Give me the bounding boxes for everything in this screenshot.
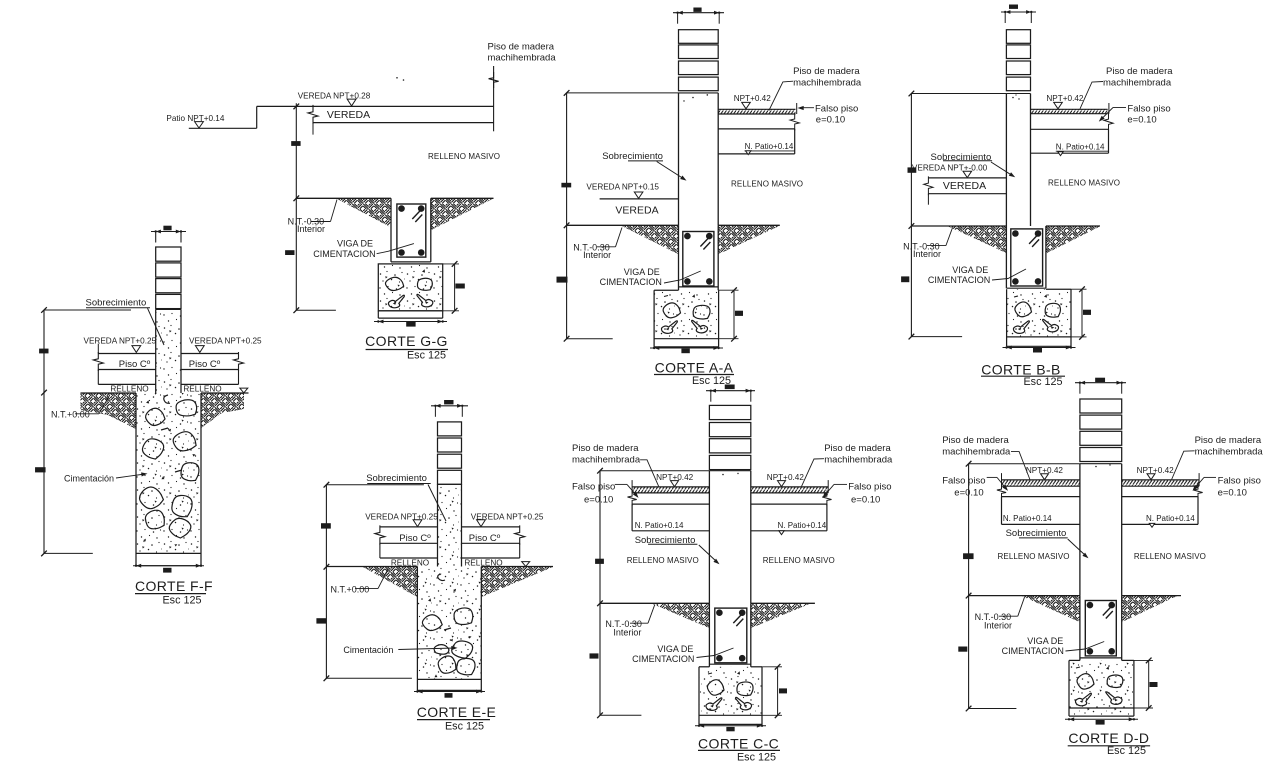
A-A left height dimension xyxy=(557,90,679,341)
D-D footing right dimension xyxy=(1134,658,1158,711)
F-F sobrecimiento stippled column xyxy=(156,309,181,393)
svg-text:machihembrada: machihembrada xyxy=(488,53,557,64)
C-C patio band left xyxy=(632,504,709,531)
A-A label Falso piso e=0.10 xyxy=(798,103,859,125)
svg-text:Interior: Interior xyxy=(613,627,641,637)
svg-text:Interior: Interior xyxy=(583,250,611,260)
F-F foundation (cimentacion) block xyxy=(136,393,201,566)
F-F label N.T.+0.00 xyxy=(51,395,110,420)
svg-text:N. Patio+0.14: N. Patio+0.14 xyxy=(635,521,684,530)
svg-text:VIGA DE: VIGA DE xyxy=(1027,636,1063,646)
E-E top width dimension xyxy=(431,400,468,417)
svg-text:RELLENO MASIVO: RELLENO MASIVO xyxy=(763,556,835,565)
svg-text:Piso Cº: Piso Cº xyxy=(399,533,431,544)
D-D sobrecimiento column walls xyxy=(1080,464,1122,596)
G-G label Piso de madera machihembrada xyxy=(488,42,557,64)
B-B ground hatch left xyxy=(948,226,1006,253)
B-B label VIGA DE CIMENTACION xyxy=(928,265,1026,285)
svg-text:Esc 125: Esc 125 xyxy=(445,720,484,732)
E-E foundation base band xyxy=(414,690,485,698)
C-C falso piso band right xyxy=(751,491,832,507)
svg-text:CORTE D-D: CORTE D-D xyxy=(1068,730,1149,746)
E-E label Piso C left xyxy=(399,533,431,544)
C-C viga below ground xyxy=(709,603,750,667)
svg-text:VIGA DE: VIGA DE xyxy=(952,265,988,275)
C-C footing block xyxy=(699,667,762,725)
F-F foundation base band xyxy=(133,564,204,573)
F-F label Piso C right xyxy=(189,359,221,370)
A-A ground line xyxy=(567,224,780,226)
D-D patio band left xyxy=(1002,497,1080,525)
svg-text:CORTE F-F: CORTE F-F xyxy=(135,578,213,594)
svg-text:RELLENO MASIVO: RELLENO MASIVO xyxy=(1134,552,1206,561)
D-D ground line xyxy=(969,595,1181,597)
G-G left dimension line xyxy=(285,103,336,313)
A-A column brick courses xyxy=(679,30,719,91)
D-D label N.T.-0.30 Interior xyxy=(975,597,1025,630)
svg-text:Sobrecimiento: Sobrecimiento xyxy=(86,298,147,309)
D-D label Piso de madera machihembrada left xyxy=(942,435,1030,480)
D-D label VIGA DE CIMENTACION xyxy=(1002,636,1105,656)
B-B viga de cimentacion section xyxy=(1006,226,1046,288)
svg-text:e=0.10: e=0.10 xyxy=(851,494,880,505)
B-B footing bottom dimension xyxy=(1003,346,1076,353)
E-E label Sobrecimiento xyxy=(366,473,446,521)
E-E sidewalk slab band (Piso) xyxy=(375,525,525,558)
svg-text:Interior: Interior xyxy=(297,224,325,234)
C-C top width dimension xyxy=(706,385,755,402)
E-E left height dimension xyxy=(316,482,424,681)
A-A title xyxy=(654,359,734,387)
B-B label VEREDA NPT+-0.00 xyxy=(912,163,988,177)
svg-text:RELLENO MASIVO: RELLENO MASIVO xyxy=(627,556,699,565)
B-B label Piso de madera machihembrada xyxy=(1080,66,1173,109)
svg-text:Falso piso: Falso piso xyxy=(1127,103,1170,114)
svg-text:CIMENTACION: CIMENTACION xyxy=(313,249,375,259)
A-A label Sobrecimiento xyxy=(602,151,686,181)
B-B label Falso piso e=0.10 xyxy=(1099,103,1171,125)
F-F sidewalk slab band (Piso) xyxy=(93,344,243,385)
F-F label RELLENO right xyxy=(183,385,221,394)
F-F left height dimension line xyxy=(35,307,131,556)
B-B label RELLENO MASIVO xyxy=(1048,179,1120,188)
B-B sobrecimiento column walls xyxy=(1006,94,1030,227)
G-G leader line from label to vereda xyxy=(489,66,499,131)
svg-text:N.T.+0.00: N.T.+0.00 xyxy=(331,584,370,594)
D-D label RELLENO MASIVO right xyxy=(1134,552,1206,561)
F-F ground hatch right xyxy=(201,393,244,428)
A-A column below ground and viga xyxy=(679,225,719,290)
E-E ground line and level mark xyxy=(326,562,553,567)
D-D patio band right xyxy=(1122,497,1198,525)
svg-text:VEREDA: VEREDA xyxy=(943,180,986,192)
D-D ground hatch left xyxy=(1022,596,1080,622)
D-D label Piso de madera machihembrada right xyxy=(1172,435,1264,480)
svg-text:N. Patio+0.14: N. Patio+0.14 xyxy=(778,521,827,530)
C-C label NPT+0.42 left xyxy=(656,473,694,487)
E-E label Cimentacion xyxy=(343,645,457,655)
C-C falso piso band left xyxy=(628,491,710,507)
F-F ground line and level mark xyxy=(81,388,249,393)
svg-text:VIGA DE: VIGA DE xyxy=(657,644,693,654)
E-E label RELLENO left xyxy=(391,559,429,568)
D-D label Falso piso e=0.10 right xyxy=(1193,475,1261,498)
svg-text:Falso piso: Falso piso xyxy=(815,103,858,114)
svg-text:CORTE E-E: CORTE E-E xyxy=(417,704,497,720)
F-F title xyxy=(135,578,213,607)
svg-text:RELLENO MASIVO: RELLENO MASIVO xyxy=(998,552,1070,561)
svg-text:machihembrada: machihembrada xyxy=(793,77,862,88)
A-A label VIGA DE CIMENTACION xyxy=(600,267,701,287)
A-A label N.T.-0.30 Interior xyxy=(573,228,622,261)
F-F label Cimentacion xyxy=(64,472,148,483)
svg-text:Sobrecimiento: Sobrecimiento xyxy=(602,151,663,162)
G-G title xyxy=(365,333,448,361)
svg-text:machihembrada: machihembrada xyxy=(1195,446,1264,457)
D-D label NPT+0.42 right xyxy=(1137,466,1175,480)
B-B footing block xyxy=(1007,289,1071,346)
A-A ground hatch left xyxy=(622,226,679,255)
A-A label VEREDA NPT+0.15 xyxy=(586,182,659,198)
svg-text:Falso piso: Falso piso xyxy=(572,481,615,492)
G-G ground hatch right xyxy=(431,199,493,231)
B-B ground line xyxy=(911,225,1100,227)
svg-text:machihembrada: machihembrada xyxy=(572,455,641,466)
C-C label Piso de madera machihembrada left xyxy=(572,443,659,486)
svg-text:e=0.10: e=0.10 xyxy=(584,494,613,505)
B-B piso de madera strip xyxy=(1031,103,1109,114)
C-C footing right dimension xyxy=(762,664,787,718)
svg-text:Cimentación: Cimentación xyxy=(64,474,114,484)
svg-text:RELLENO MASIVO: RELLENO MASIVO xyxy=(428,152,500,161)
B-B falso piso band xyxy=(1031,113,1114,132)
svg-text:CORTE G-G: CORTE G-G xyxy=(365,333,448,349)
B-B column brick courses xyxy=(1006,30,1030,91)
C-C label NPT+0.42 right xyxy=(767,473,805,487)
svg-text:Piso de madera: Piso de madera xyxy=(488,42,555,53)
C-C piso de madera strip left xyxy=(632,480,709,493)
svg-text:machihembrada: machihembrada xyxy=(942,446,1011,457)
svg-text:machihembrada: machihembrada xyxy=(1103,77,1172,88)
svg-text:CIMENTACION: CIMENTACION xyxy=(1002,646,1064,656)
svg-text:VEREDA NPT+0.25: VEREDA NPT+0.25 xyxy=(189,337,262,346)
E-E sobrecimiento stippled column xyxy=(438,484,462,566)
svg-text:VEREDA NPT+0.28: VEREDA NPT+0.28 xyxy=(298,92,371,101)
C-C label N. Patio+0.14 right xyxy=(778,521,827,534)
svg-text:RELLENO MASIVO: RELLENO MASIVO xyxy=(731,180,803,189)
svg-text:Falso piso: Falso piso xyxy=(848,481,891,492)
svg-text:Piso de madera: Piso de madera xyxy=(1195,435,1262,446)
svg-text:RELLENO MASIVO: RELLENO MASIVO xyxy=(1048,179,1120,188)
F-F ground hatch left xyxy=(81,393,137,429)
E-E label VEREDA NPT+0.25 right xyxy=(471,513,544,527)
svg-text:CIMENTACION: CIMENTACION xyxy=(928,275,990,285)
svg-text:N. Patio+0.14: N. Patio+0.14 xyxy=(1003,514,1052,523)
C-C label N. Patio+0.14 left xyxy=(635,521,684,530)
svg-text:N.T.+0.00: N.T.+0.00 xyxy=(51,410,90,420)
svg-text:Falso piso: Falso piso xyxy=(942,475,985,486)
svg-text:CORTE A-A: CORTE A-A xyxy=(655,359,734,375)
G-G label VEREDA NPT+0.28 xyxy=(298,92,371,106)
C-C ground line xyxy=(600,602,815,604)
A-A label Piso de madera machihembrada xyxy=(769,66,862,110)
G-G footing block xyxy=(378,264,442,318)
svg-text:VEREDA NPT+-0.00: VEREDA NPT+-0.00 xyxy=(912,163,988,172)
svg-text:RELLENO: RELLENO xyxy=(183,385,221,394)
B-B patio band xyxy=(1031,129,1109,153)
E-E ground hatch right xyxy=(481,567,553,597)
svg-text:NPT+0.42: NPT+0.42 xyxy=(1046,94,1084,103)
svg-text:VEREDA NPT+0.15: VEREDA NPT+0.15 xyxy=(586,182,659,191)
D-D left height dimension xyxy=(958,461,1080,711)
svg-text:Sobrecimiento: Sobrecimiento xyxy=(366,473,427,484)
C-C ground hatch left xyxy=(652,604,709,628)
E-E label RELLENO right xyxy=(464,559,502,568)
svg-text:Piso Cº: Piso Cº xyxy=(189,359,221,370)
C-C piso de madera strip right xyxy=(751,480,828,493)
svg-text:CIMENTACION: CIMENTACION xyxy=(600,277,662,287)
A-A vereda line and label xyxy=(600,199,679,217)
F-F label Sobrecimiento xyxy=(86,298,165,346)
svg-text:N. Patio+0.14: N. Patio+0.14 xyxy=(1056,142,1105,151)
G-G viga de cimentacion section xyxy=(391,198,431,262)
B-B label NPT+0.42 xyxy=(1046,94,1084,109)
C-C sobrecimiento column walls xyxy=(709,471,750,604)
D-D footing block xyxy=(1069,660,1134,716)
A-A footing block xyxy=(654,290,719,347)
C-C ground hatch right xyxy=(751,604,810,628)
svg-text:e=0.10: e=0.10 xyxy=(1127,114,1156,125)
E-E label N.T.+0.00 xyxy=(331,569,389,594)
C-C left height dimension xyxy=(590,468,710,718)
svg-text:VIGA DE: VIGA DE xyxy=(624,267,660,277)
svg-text:Piso Cº: Piso Cº xyxy=(119,359,151,370)
B-B label N. Patio+0.14 xyxy=(1056,142,1109,155)
D-D viga below ground xyxy=(1080,596,1122,661)
svg-text:Piso de madera: Piso de madera xyxy=(1106,66,1173,77)
E-E title xyxy=(417,704,497,733)
A-A label N. Patio+0.14 xyxy=(745,142,795,155)
A-A top width dimension xyxy=(673,8,724,24)
A-A footing right dimension xyxy=(719,287,743,341)
E-E foundation (cimentacion) block xyxy=(417,567,481,691)
svg-text:N. Patio+0.14: N. Patio+0.14 xyxy=(1146,514,1195,523)
D-D label Falso piso e=0.10 left xyxy=(942,475,1008,498)
C-C title xyxy=(698,736,780,764)
D-D label NPT+0.42 left xyxy=(1026,466,1064,480)
svg-text:VEREDA NPT+0.25: VEREDA NPT+0.25 xyxy=(84,337,157,346)
svg-text:VIGA DE: VIGA DE xyxy=(337,239,373,249)
G-G label VEREDA xyxy=(327,109,370,121)
D-D falso piso band left xyxy=(997,484,1080,500)
B-B top width dimension xyxy=(1001,5,1036,24)
G-G ground line xyxy=(296,197,493,199)
E-E label Piso C right xyxy=(469,533,501,544)
F-F column brick courses xyxy=(156,247,181,309)
B-B vereda band xyxy=(924,176,1007,204)
svg-text:Piso de madera: Piso de madera xyxy=(572,443,639,454)
C-C label N.T.-0.30 Interior xyxy=(605,605,654,638)
A-A patio band xyxy=(718,129,795,154)
G-G label VIGA DE CIMENTACION xyxy=(313,239,414,259)
CORTE F-F top width dimension xyxy=(151,226,186,243)
G-G footing right dimension xyxy=(443,261,465,314)
C-C column brick courses xyxy=(709,405,750,469)
B-B left height dimension xyxy=(901,91,1006,340)
D-D footing bottom dimension xyxy=(1065,717,1138,724)
svg-text:e=0.10: e=0.10 xyxy=(816,114,845,125)
G-G label RELLENO MASIVO xyxy=(428,152,500,161)
D-D label RELLENO MASIVO left xyxy=(998,552,1070,561)
F-F curved mark at foundation top xyxy=(164,395,170,403)
G-G stray dots xyxy=(396,77,404,81)
svg-text:Interior: Interior xyxy=(984,621,1012,631)
svg-text:VEREDA: VEREDA xyxy=(327,109,370,121)
E-E label VEREDA NPT+0.25 left xyxy=(365,513,438,527)
svg-text:NPT+0.42: NPT+0.42 xyxy=(734,94,772,103)
D-D falso piso band right xyxy=(1122,484,1203,500)
D-D piso de madera strip right xyxy=(1122,473,1199,486)
svg-text:Esc 125: Esc 125 xyxy=(737,751,776,763)
C-C footing bottom dimension xyxy=(695,724,766,732)
B-B label N.T.-0.30 Interior xyxy=(903,228,952,259)
E-E column brick courses xyxy=(438,422,462,484)
D-D piso de madera strip left xyxy=(1002,473,1080,486)
C-C label Piso de madera machihembrada right xyxy=(802,443,894,486)
D-D column brick courses xyxy=(1080,399,1122,462)
G-G vereda band xyxy=(257,105,494,135)
svg-text:CORTE C-C: CORTE C-C xyxy=(698,736,779,752)
F-F label VEREDA NPT+0.25 right xyxy=(189,337,262,353)
svg-text:e=0.10: e=0.10 xyxy=(1218,487,1247,498)
C-C label RELLENO MASIVO left xyxy=(627,556,699,565)
B-B label Sobrecimiento xyxy=(931,152,1016,177)
A-A sobrecimiento column walls xyxy=(679,93,719,225)
svg-text:Cimentación: Cimentación xyxy=(343,645,393,655)
svg-text:Piso Cº: Piso Cº xyxy=(469,533,501,544)
C-C label Sobrecimiento xyxy=(635,535,720,564)
svg-text:Interior: Interior xyxy=(913,249,941,259)
B-B ground hatch right xyxy=(1046,226,1100,253)
A-A footing bottom dimension xyxy=(650,346,723,353)
D-D top width dimension xyxy=(1075,378,1126,394)
A-A label RELLENO MASIVO xyxy=(731,180,803,189)
svg-text:Esc 125: Esc 125 xyxy=(1023,376,1062,388)
C-C label Falso piso e=0.10 right xyxy=(823,481,892,505)
G-G footing bottom dimension xyxy=(374,320,447,327)
D-D ground hatch right xyxy=(1122,596,1177,622)
svg-text:VEREDA: VEREDA xyxy=(615,204,658,216)
B-B title xyxy=(981,361,1065,388)
svg-text:Esc 125: Esc 125 xyxy=(407,349,446,361)
C-C label VIGA DE CIMENTACION xyxy=(632,644,733,664)
G-G label N.T.-0.30 Interior xyxy=(288,200,337,234)
D-D label Sobrecimiento xyxy=(1006,528,1089,558)
D-D label N. Patio+0.14 right xyxy=(1146,514,1195,527)
svg-text:Piso de madera: Piso de madera xyxy=(942,435,1009,446)
C-C label RELLENO MASIVO right xyxy=(763,556,835,565)
svg-text:Esc 125: Esc 125 xyxy=(1107,745,1146,757)
svg-text:RELLENO: RELLENO xyxy=(110,385,148,394)
C-C label Falso piso e=0.10 left xyxy=(572,481,639,505)
svg-text:Piso de madera: Piso de madera xyxy=(824,443,891,454)
svg-text:VEREDA NPT+0.25: VEREDA NPT+0.25 xyxy=(365,513,438,522)
D-D title xyxy=(1068,730,1150,757)
svg-text:Piso de madera: Piso de madera xyxy=(793,66,860,77)
F-F label RELLENO left xyxy=(110,385,148,394)
svg-text:CIMENTACION: CIMENTACION xyxy=(632,654,694,664)
D-D label N. Patio+0.14 left xyxy=(1003,514,1052,523)
svg-text:Falso piso: Falso piso xyxy=(1218,475,1261,486)
A-A piso de madera strip xyxy=(718,103,797,114)
F-F label Piso C left xyxy=(119,359,151,370)
C-C patio band right xyxy=(751,504,827,531)
G-G ground hatch left xyxy=(337,199,391,228)
A-A label NPT+0.42 xyxy=(734,94,772,109)
A-A falso piso band xyxy=(718,113,799,131)
E-E ground hatch left xyxy=(363,567,418,597)
G-G patio step line and label xyxy=(166,106,256,128)
F-F label VEREDA NPT+0.25 left xyxy=(84,337,157,353)
svg-text:machihembrada: machihembrada xyxy=(824,455,893,466)
B-B footing right dimension xyxy=(1071,286,1091,339)
svg-text:N. Patio+0.14: N. Patio+0.14 xyxy=(745,142,794,151)
svg-text:Esc 125: Esc 125 xyxy=(162,594,201,606)
A-A ground hatch right xyxy=(718,226,780,255)
